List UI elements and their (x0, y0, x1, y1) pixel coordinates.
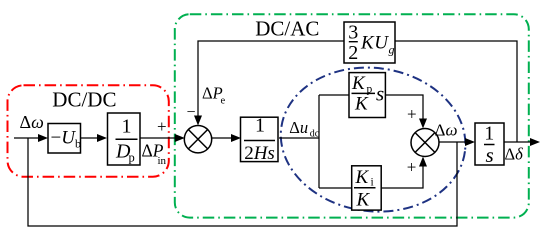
wire: Kp block to summer 2 top (385, 95, 423, 119)
svg-text:Δω: Δω (20, 112, 44, 132)
svg-text:KU: KU (360, 33, 389, 54)
arrow down into summer 1 top (194, 116, 202, 126)
DC/DC dashed red boundary box (8, 85, 169, 176)
output arrow (530, 138, 540, 146)
svg-text:+: + (407, 158, 417, 177)
arrow into block Ub (38, 134, 48, 142)
wire: Dp to summer 1 (140, 137, 177, 139)
wire: lower branch into Ki block (319, 187, 352, 189)
PI controller dashed blue ellipse (272, 57, 474, 222)
svg-text:p: p (129, 151, 135, 165)
svg-text:Δω: Δω (435, 121, 458, 140)
wire: summer 2 to integrator (439, 141, 466, 143)
wire: summer 1 to 2Hs block (212, 137, 232, 139)
summer 2 circle with cross (411, 129, 439, 157)
wire: integrator out to output arrow (504, 141, 531, 143)
wire: 2Hs out to split node (279, 137, 319, 139)
block Kp rectangle (349, 73, 385, 118)
arrow into summer 1 left (175, 134, 185, 142)
svg-text:K: K (356, 190, 371, 211)
svg-text:dc: dc (310, 128, 320, 139)
svg-text:DC/DC: DC/DC (52, 88, 116, 112)
svg-text:−: − (187, 104, 196, 121)
arrow down into summer 2 top (419, 119, 427, 129)
svg-text:DC/AC: DC/AC (255, 17, 319, 41)
svg-text:3: 3 (348, 22, 358, 44)
svg-text:K: K (351, 73, 366, 94)
wire: branch up from output to KUg block (395, 41, 517, 142)
wire: KUg block output to summer 1 top (198, 41, 344, 116)
svg-text:s: s (376, 82, 384, 106)
svg-text:2: 2 (348, 42, 358, 64)
DC/AC dashed green boundary box (175, 14, 529, 217)
block Ub rectangle (48, 124, 81, 154)
svg-text:K: K (354, 94, 369, 115)
svg-text:2Hs: 2Hs (244, 143, 275, 164)
summer 1 circle with cross (184, 126, 211, 153)
arrow up into summer 2 bottom (419, 157, 427, 167)
svg-text:Δδ: Δδ (505, 145, 524, 164)
svg-text:i: i (371, 177, 374, 189)
block 2Hs rectangle (241, 117, 279, 161)
svg-text:e: e (221, 96, 226, 107)
wire: Ki block to summer 2 bottom (381, 166, 423, 188)
arrow into 2Hs block (231, 134, 241, 142)
arrow into integrator block (465, 138, 475, 146)
svg-text:1: 1 (484, 123, 494, 145)
block Dp rectangle (108, 113, 141, 165)
svg-text:+: + (157, 117, 167, 136)
svg-text:1: 1 (122, 116, 132, 138)
block KUg rectangle (344, 22, 395, 63)
svg-text:Δu: Δu (289, 118, 308, 137)
svg-text:s: s (486, 143, 494, 167)
wire: input (14, 137, 39, 139)
arrow into block Dp (97, 134, 107, 142)
wire: split vertical (318, 95, 320, 188)
svg-text:g: g (389, 43, 395, 57)
svg-text:1: 1 (255, 115, 265, 137)
svg-text:in: in (158, 155, 167, 167)
block Ki rectangle (352, 166, 382, 210)
svg-text:+: + (407, 105, 417, 124)
svg-text:K: K (355, 167, 370, 188)
wire: Ub to Dp (81, 137, 99, 139)
wire: feedback from speed node down and around bottom (28, 138, 457, 226)
block integrator rectangle (475, 123, 504, 165)
wire: upper branch into Kp block (319, 94, 349, 96)
